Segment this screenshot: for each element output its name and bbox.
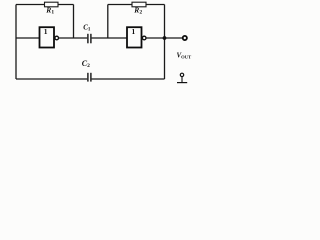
resistor R1 [45,2,59,16]
inverter U2 [127,27,146,47]
node: output junction dot [163,36,167,40]
terminal: VOUT upper (open circle) [183,36,187,40]
wire: top horizontal of R2 loop [108,4,165,6]
inverter U1 [40,27,59,47]
background [0,0,200,92]
wire: R1 loop right drop to gate1 output [73,5,75,39]
capacitor C2 [82,59,91,81]
svg-text:1: 1 [132,27,136,36]
wire: gate2 output to VOUT terminal [146,37,182,39]
wire: R2 loop left drop to gate2 input [107,5,109,39]
wire: left vertical (gate1 input to top wire and bottom wire) [15,5,17,80]
capacitor C1 [83,24,91,44]
wire: right vertical (R2 loop / output drop to bottom wire) [164,5,166,80]
resistor R2 [132,2,146,16]
svg-text:1: 1 [44,27,48,36]
wire: bottom horizontal with C2 (right part) [92,78,165,80]
wire: C1 to gate2 input [92,37,127,39]
wire: bottom horizontal with C2 (left part) [16,78,87,80]
wire: gate1 input [16,37,40,39]
wire: gate1 output to C1 [59,37,88,39]
wire: top horizontal of R1 loop [16,4,74,6]
terminal: VOUT lower post (circle + stem + base bar) [177,73,187,82]
